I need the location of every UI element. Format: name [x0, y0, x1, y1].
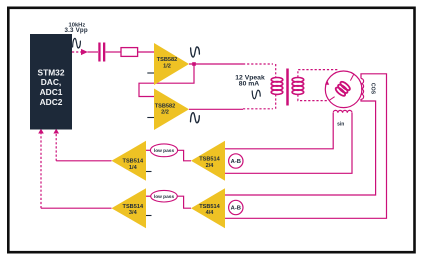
svg-text:COS: COS	[370, 83, 376, 95]
svg-text:TSB582: TSB582	[155, 103, 176, 109]
svg-text:2/2: 2/2	[161, 110, 169, 116]
svg-text:80 mA: 80 mA	[239, 81, 259, 88]
svg-text:STM32: STM32	[38, 67, 65, 77]
svg-text:4/4: 4/4	[206, 210, 215, 216]
svg-text:1/2: 1/2	[163, 64, 171, 70]
svg-text:TSB514: TSB514	[199, 156, 220, 162]
svg-text:sin: sin	[337, 122, 344, 128]
svg-text:A-B: A-B	[231, 206, 241, 212]
svg-text:3/4: 3/4	[129, 210, 138, 216]
svg-text:low pass: low pass	[154, 194, 175, 200]
svg-text:TSB514: TSB514	[199, 204, 220, 210]
svg-text:1/4: 1/4	[129, 165, 138, 171]
svg-text:3.3 Vpp: 3.3 Vpp	[64, 27, 87, 34]
svg-text:TSB582: TSB582	[157, 57, 178, 63]
svg-text:ADC1: ADC1	[40, 87, 63, 97]
svg-text:2/4: 2/4	[206, 163, 215, 169]
svg-text:TSB514: TSB514	[123, 204, 144, 210]
svg-text:TSB514: TSB514	[123, 159, 144, 165]
svg-text:DAC,: DAC,	[41, 77, 61, 87]
svg-text:low pass: low pass	[154, 148, 175, 154]
svg-text:ADC2: ADC2	[40, 97, 63, 107]
svg-text:A-B: A-B	[231, 159, 241, 165]
